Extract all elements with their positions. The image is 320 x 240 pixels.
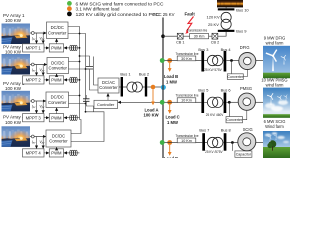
svg-text:100 KW: 100 KW <box>5 18 22 23</box>
wire feedback into PWM2 <box>64 79 69 81</box>
svg-text:Converter: Converter <box>48 100 67 105</box>
inductor L3 <box>69 115 79 120</box>
wire controller feedback from PCC bus <box>118 101 162 103</box>
wire Vpv tap 1 <box>42 33 44 43</box>
node measurement point PV3 <box>31 100 34 103</box>
PV array 2 label <box>3 45 25 55</box>
junction dot PMSG tap <box>228 101 231 104</box>
bus 9 bar <box>218 29 247 34</box>
controller MPPT 3 <box>23 114 45 122</box>
svg-text:Capacitor: Capacitor <box>236 153 252 157</box>
wire Bus 4 to DFIG <box>226 60 239 62</box>
svg-text:1 MW: 1 MW <box>167 120 178 125</box>
wind farm photo DFIG <box>263 46 290 78</box>
bus bar Bus 5 <box>198 87 208 113</box>
junction dot DC rail <box>85 103 87 105</box>
converter DC/DC 3 <box>46 92 69 108</box>
svg-text:Vpv: Vpv <box>39 104 45 109</box>
PV array 1 photo <box>2 24 31 45</box>
wire PMSG generator to converter box <box>243 110 247 119</box>
svg-text:100 KW: 100 KW <box>144 113 159 118</box>
label wind farm PMSG <box>261 78 287 88</box>
wire Ipv tap 3 <box>36 101 38 113</box>
svg-text:CB 2: CB 2 <box>211 41 219 45</box>
wire feedback into PWM1 <box>64 47 69 49</box>
svg-text:wind farm: wind farm <box>266 83 284 88</box>
load arrow DFIG row <box>169 63 171 71</box>
wire bus10 to utility photo <box>225 6 227 9</box>
svg-text:MPPT 4: MPPT 4 <box>26 151 42 156</box>
label load A <box>144 108 159 118</box>
wind farm photo PMSG <box>263 88 290 118</box>
svg-text:Load D: Load D <box>164 156 178 158</box>
svg-text:1 MW: 1 MW <box>166 80 177 85</box>
wire second branch <box>94 57 99 86</box>
svg-text:Bus 3: Bus 3 <box>198 47 208 52</box>
svg-text:25 KV/ 575V: 25 KV/ 575V <box>204 68 222 72</box>
junction dot DC rail <box>79 33 81 35</box>
svg-text:Bus 4: Bus 4 <box>221 47 232 52</box>
wire MPPT3 to PWM3 <box>44 117 49 119</box>
transmission line 30 km (grid) <box>183 28 212 39</box>
svg-text:MPPT 2: MPPT 2 <box>26 78 42 83</box>
svg-text:120 KV: 120 KV <box>207 14 220 19</box>
node measurement point PV4 <box>31 135 34 138</box>
svg-text:Bus 10: Bus 10 <box>236 7 249 12</box>
wire SCIG to wind farm photo <box>256 142 263 144</box>
junction dot DC rail <box>79 95 81 97</box>
wire converter4 top output <box>71 120 81 134</box>
block Converter (DFIG) <box>227 74 244 80</box>
controller MPPT 2 <box>23 76 45 84</box>
svg-text:Ipv: Ipv <box>32 36 36 41</box>
wire MPPT4 to PWM4 <box>44 152 49 154</box>
svg-text:Converter: Converter <box>49 139 68 144</box>
svg-text:100 KW: 100 KW <box>5 120 22 125</box>
transformer DFIG row <box>204 55 224 65</box>
svg-text:MPPT 3: MPPT 3 <box>26 115 42 120</box>
legend item: utility grid <box>67 12 160 17</box>
load A tap dot <box>151 85 156 90</box>
bus 10 bar <box>218 7 250 12</box>
wire to Converter box (PMSG) <box>228 102 230 116</box>
capacitor C1 DC link <box>86 67 93 70</box>
transformer T1 <box>123 82 145 92</box>
svg-text:Converter: Converter <box>226 118 243 122</box>
PV array 3 photo <box>2 91 31 112</box>
wire inductor L3 to DC rail <box>78 117 79 119</box>
wire PV1 output <box>30 32 46 34</box>
svg-text:100 KW: 100 KW <box>5 86 22 91</box>
svg-text:30 Km: 30 Km <box>194 35 205 39</box>
svg-text:Bus 2: Bus 2 <box>139 71 150 76</box>
converter DC/AC U1 <box>98 78 119 93</box>
wire Vpv tap 2 <box>42 65 44 76</box>
junction dot DC rail <box>85 68 87 70</box>
svg-text:100 KW: 100 KW <box>5 50 22 55</box>
wire Bus 6 to PMSG <box>226 101 238 103</box>
wire controller to DC/AC converter <box>107 94 109 101</box>
generator SCIG <box>238 127 256 151</box>
transmission line 10 Km (PMSG) <box>176 94 202 103</box>
wire DC/AC converter to bus 1 <box>119 86 121 88</box>
label wind farm DFIG <box>264 35 286 45</box>
svg-text:10 Km: 10 Km <box>181 139 192 143</box>
wire inductor L4 to DC rail <box>78 152 79 154</box>
capacitor C2 DC link <box>83 99 90 102</box>
controller MPPT 1 <box>23 44 45 52</box>
wire PWM1 to converter 1 <box>56 39 58 44</box>
label load B <box>164 74 178 84</box>
wire main PCC bus <box>162 18 164 159</box>
block PWM 4 <box>49 149 63 157</box>
transformer T grid 120/25 KV <box>221 12 231 29</box>
circuit breaker CB2 <box>211 33 219 44</box>
generator PMSG <box>238 86 255 110</box>
wire DC rail positive <box>68 27 80 120</box>
wire DFIG to wind farm photo <box>256 60 263 62</box>
wire to Converter box (DFIG) <box>231 61 233 74</box>
svg-text:25 KV/ 460V: 25 KV/ 460V <box>206 113 224 117</box>
converter DC/DC 4 <box>46 130 71 147</box>
bus 2 bar <box>139 71 150 96</box>
svg-text:Transmission line: Transmission line <box>176 94 199 98</box>
svg-text:120 KV utility grid connected: 120 KV utility grid connected to PCC <box>76 12 160 17</box>
node measurement point PV2 <box>31 63 34 66</box>
svg-text:PCC 25 KV: PCC 25 KV <box>153 12 175 17</box>
node PV plant connection (cyan) <box>161 85 166 90</box>
wire Vpv tap 4 <box>42 137 44 149</box>
svg-text:Bus 8: Bus 8 <box>221 128 231 133</box>
svg-text:Controller: Controller <box>97 102 115 107</box>
transmission line 10 Km (SCIG) <box>176 134 203 143</box>
bus bar Bus 7 <box>199 128 209 151</box>
wire Vpv tap 3 <box>42 101 44 113</box>
block Converter (PMSG) <box>226 117 243 123</box>
load tap dot PMSG row <box>167 100 172 105</box>
svg-text:SCIG: SCIG <box>243 127 253 132</box>
load tap dot SCIG row <box>167 140 172 145</box>
wire PMSG to wind farm photo <box>255 101 263 103</box>
svg-text:25 KV: 25 KV <box>208 22 219 27</box>
wire PWM2 to converter 2 <box>56 74 58 76</box>
bus bar Bus 4 <box>221 47 232 72</box>
wire MPPT2 to PWM2 <box>44 79 49 81</box>
circuit breaker CB1 <box>176 33 184 44</box>
PV array 1 label <box>3 13 25 23</box>
bus bar Bus 8 <box>221 128 231 151</box>
load tap dot DFIG row <box>167 58 172 63</box>
controller MPPT 4 <box>23 149 45 157</box>
svg-text:PWM: PWM <box>51 151 62 156</box>
wire to Capacitor box (SCIG) <box>231 143 233 151</box>
transformer SCIG row <box>205 137 224 147</box>
wire PWM3 to converter 3 <box>56 108 58 114</box>
fault lightning bolt <box>185 17 193 34</box>
block PWM 3 <box>49 114 63 122</box>
wire DFIG row from PCC <box>165 60 178 62</box>
node junction PMSG row (green) <box>160 100 165 105</box>
svg-text:Vpv: Vpv <box>39 68 45 73</box>
svg-text:PWM: PWM <box>51 46 62 51</box>
svg-text:Fault: Fault <box>185 11 196 16</box>
block Capacitor (SCIG) <box>235 151 252 157</box>
svg-text:Bus 7: Bus 7 <box>199 128 209 133</box>
svg-text:Transmission line: Transmission line <box>176 52 199 56</box>
junction dot DC rail <box>79 55 81 57</box>
wire bus 2 to PCC <box>147 86 163 88</box>
legend item: SCIG wind farm <box>67 1 164 6</box>
legend item: different load <box>67 6 120 11</box>
svg-text:Converter: Converter <box>49 66 68 71</box>
load arrow PMSG row <box>169 105 171 113</box>
wind farm photo SCIG <box>263 131 290 158</box>
PV array 4 photo <box>2 126 31 147</box>
converter DC/DC 2 <box>47 58 69 74</box>
svg-text:10 Km: 10 Km <box>181 99 192 103</box>
generator DFIG <box>239 45 256 69</box>
load arrow SCIG row <box>169 145 171 155</box>
bus bar Bus 3 <box>198 47 208 72</box>
svg-text:Vpv: Vpv <box>39 140 45 145</box>
node junction SCIG row (green) <box>160 140 165 145</box>
inductor L1 <box>69 45 79 50</box>
wire converter3 outputs <box>69 96 86 104</box>
svg-text:PWM: PWM <box>51 115 62 120</box>
svg-text:Load C: Load C <box>166 115 180 120</box>
svg-text:Wind farm: Wind farm <box>265 124 284 129</box>
wire PMSG row from PCC <box>165 101 178 103</box>
wire converter2 outputs <box>69 62 86 70</box>
wire Ipv tap 4 <box>36 137 38 149</box>
wire inductor L1 to DC rail <box>78 47 79 49</box>
PV array 4 label <box>3 115 25 125</box>
label wind farm SCIG <box>264 119 286 129</box>
load A arrow <box>152 89 154 104</box>
junction dot DC rail <box>79 61 81 63</box>
bus bar Bus 6 <box>221 87 231 113</box>
utility grid photo <box>217 0 243 7</box>
svg-text:DFIG: DFIG <box>240 45 250 50</box>
svg-text:Converter: Converter <box>48 30 67 35</box>
wire PWM4 to converter 4 <box>56 147 58 148</box>
wire Ipv tap 1 <box>36 33 38 43</box>
svg-text:Ipv: Ipv <box>32 140 36 145</box>
block PWM 1 <box>49 44 63 52</box>
svg-text:Bus 5: Bus 5 <box>198 87 208 92</box>
PV array 2 photo <box>2 54 31 75</box>
wire feedback into PWM3 <box>64 117 69 119</box>
wire SCIG row from PCC <box>165 142 178 144</box>
bus 1 bar <box>120 71 131 96</box>
wire PV4 output <box>30 136 46 138</box>
transmission line 30 Km (DFIG) <box>176 52 202 61</box>
svg-text:30 Km: 30 Km <box>181 57 192 61</box>
inductor L4 <box>69 150 79 155</box>
junction dot grid branch <box>161 34 165 38</box>
svg-text:Vpv: Vpv <box>39 36 45 41</box>
svg-text:6 MW SCIG wind farm connected: 6 MW SCIG wind farm connected to PCC <box>76 1 164 6</box>
svg-text:Transmission line: Transmission line <box>187 28 208 32</box>
svg-text:PMSG: PMSG <box>240 86 252 91</box>
svg-text:Bus 9: Bus 9 <box>236 29 247 34</box>
svg-text:PWM: PWM <box>51 78 62 83</box>
svg-text:Transmission line: Transmission line <box>176 134 199 138</box>
wire converter4 bottom output <box>71 112 104 142</box>
svg-text:Bus 1: Bus 1 <box>120 71 131 76</box>
wire MPPT1 to PWM1 <box>44 47 49 49</box>
transformer PMSG row <box>204 97 224 107</box>
node measurement point PV1 <box>31 32 34 35</box>
svg-text:wind farm: wind farm <box>266 40 284 45</box>
svg-text:CB 1: CB 1 <box>176 41 184 45</box>
svg-text:Load B: Load B <box>164 74 178 79</box>
wire DFIG generator to converter box <box>243 70 247 77</box>
wire CB2 to bus 9 <box>218 32 226 36</box>
wire inductor L2 to DC rail <box>78 79 79 81</box>
junction dot DC rail <box>85 111 87 113</box>
wire DC rail negative <box>68 34 86 112</box>
wire Bus 8 to SCIG <box>226 142 237 144</box>
svg-text:Ipv: Ipv <box>32 104 36 109</box>
svg-text:Bus 6: Bus 6 <box>221 87 231 92</box>
wire capacitor C2 leads <box>86 95 93 112</box>
svg-text:Ipv: Ipv <box>32 68 36 73</box>
PV array 3 label <box>3 81 25 91</box>
junction dot SCIG tap <box>231 141 234 144</box>
svg-text:25 KV /575V: 25 KV /575V <box>205 150 223 154</box>
svg-text:Converter: Converter <box>99 85 118 90</box>
wire PCC to CB1 <box>163 35 177 37</box>
wire feedback into PWM4 <box>64 152 69 154</box>
controller block <box>94 100 118 108</box>
wire capacitor branch <box>80 56 99 90</box>
block PWM 2 <box>49 76 63 84</box>
svg-text:MPPT 1: MPPT 1 <box>26 46 42 51</box>
junction dot DC rail <box>79 79 81 81</box>
wire PV2 output <box>30 64 47 66</box>
junction dot DFIG tap <box>230 59 233 62</box>
wire Ipv tap 2 <box>36 65 38 76</box>
converter DC/DC 1 <box>47 22 69 39</box>
junction dot DC rail <box>79 47 81 49</box>
svg-text:Converter: Converter <box>227 75 244 79</box>
label load C <box>166 115 180 125</box>
node junction DFIG row (green) <box>160 58 165 63</box>
wire PV3 output <box>30 100 46 102</box>
inductor L2 <box>69 77 79 82</box>
